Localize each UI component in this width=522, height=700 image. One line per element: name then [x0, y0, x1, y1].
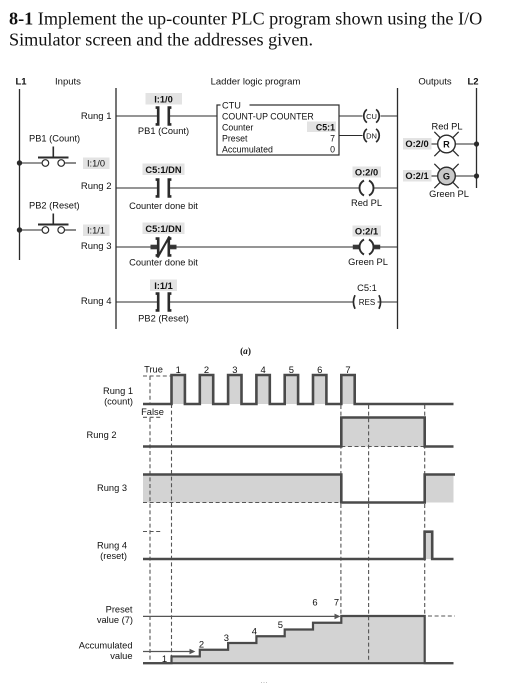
svg-text:...: ...: [260, 675, 268, 685]
svg-text:O:2/1: O:2/1: [355, 227, 378, 237]
svg-text:value (7): value (7): [97, 615, 133, 625]
svg-text:Simulator screen and the addre: Simulator screen and the addresses given…: [9, 30, 313, 50]
svg-text:I:1/1: I:1/1: [154, 281, 173, 291]
svg-text:Accumulated: Accumulated: [79, 640, 133, 650]
svg-text:Preset: Preset: [222, 134, 248, 144]
svg-text:Counter done bit: Counter done bit: [129, 201, 198, 211]
svg-text:True: True: [144, 364, 163, 374]
svg-text:(count): (count): [104, 397, 133, 407]
svg-text:8-1 Implement the up-counter P: 8-1 Implement the up-counter PLC program…: [9, 9, 482, 29]
svg-text:6: 6: [317, 364, 322, 375]
svg-text:O:2/0: O:2/0: [355, 168, 378, 178]
svg-text:(reset): (reset): [100, 551, 127, 561]
svg-text:4: 4: [260, 364, 265, 375]
svg-text:O:2/1: O:2/1: [405, 171, 428, 181]
svg-text:R: R: [443, 139, 450, 149]
svg-text:2: 2: [199, 638, 204, 649]
svg-text:C5:1: C5:1: [316, 123, 335, 133]
svg-text:PB2 (Reset): PB2 (Reset): [138, 314, 189, 324]
svg-text:6: 6: [312, 597, 317, 608]
svg-text:Rung 4: Rung 4: [81, 296, 112, 307]
svg-text:7: 7: [334, 597, 339, 608]
svg-text:0: 0: [330, 145, 335, 155]
svg-text:O:2/0: O:2/0: [405, 139, 428, 149]
svg-text:COUNT-UP COUNTER: COUNT-UP COUNTER: [222, 112, 314, 122]
svg-text:I:1/0: I:1/0: [154, 94, 173, 104]
svg-text:Inputs: Inputs: [55, 77, 81, 88]
svg-text:Preset: Preset: [106, 605, 133, 615]
svg-text:3: 3: [224, 632, 229, 643]
svg-text:5: 5: [289, 364, 294, 375]
svg-text:2: 2: [204, 364, 209, 375]
svg-text:Green PL: Green PL: [429, 189, 469, 199]
svg-text:False: False: [141, 407, 164, 417]
svg-text:C5:1: C5:1: [357, 283, 377, 293]
svg-text:L1: L1: [15, 76, 27, 87]
svg-text:Outputs: Outputs: [418, 77, 452, 88]
svg-text:C5:1/DN: C5:1/DN: [145, 224, 181, 234]
svg-text:(a): (a): [240, 346, 251, 357]
svg-text:C5:1/DN: C5:1/DN: [145, 165, 181, 175]
svg-text:DN: DN: [366, 131, 377, 140]
svg-text:Red PL: Red PL: [431, 121, 462, 131]
svg-text:Counter: Counter: [222, 123, 253, 133]
svg-text:PB1 (Count): PB1 (Count): [29, 134, 80, 144]
svg-text:Rung 3: Rung 3: [81, 241, 112, 252]
svg-text:1: 1: [162, 653, 167, 664]
svg-text:value: value: [110, 651, 132, 661]
svg-text:CTU: CTU: [222, 101, 241, 111]
svg-text:4: 4: [252, 626, 257, 637]
svg-text:I:1/1: I:1/1: [87, 225, 105, 235]
svg-text:CU: CU: [366, 112, 377, 121]
svg-text:Accumulated: Accumulated: [222, 145, 273, 155]
svg-text:Rung 1: Rung 1: [81, 111, 112, 122]
svg-text:Rung 1: Rung 1: [103, 386, 133, 396]
svg-text:Rung 3: Rung 3: [97, 483, 127, 493]
svg-text:Green PL: Green PL: [348, 257, 388, 267]
svg-text:L2: L2: [467, 76, 478, 87]
svg-text:Rung 2: Rung 2: [87, 430, 117, 440]
svg-text:5: 5: [278, 619, 283, 630]
svg-text:7: 7: [345, 364, 350, 375]
svg-text:PB1 (Count): PB1 (Count): [138, 126, 189, 136]
svg-text:7: 7: [330, 134, 335, 144]
svg-text:Ladder logic program: Ladder logic program: [211, 77, 301, 88]
svg-text:PB2 (Reset): PB2 (Reset): [29, 201, 80, 211]
svg-text:3: 3: [232, 364, 237, 375]
svg-text:Counter done bit: Counter done bit: [129, 257, 198, 267]
svg-text:I:1/0: I:1/0: [87, 158, 105, 168]
svg-text:Rung 2: Rung 2: [81, 181, 112, 192]
svg-text:G: G: [443, 171, 450, 181]
svg-text:RES: RES: [359, 298, 375, 307]
svg-text:Red PL: Red PL: [351, 198, 382, 208]
svg-text:1: 1: [176, 364, 181, 375]
svg-text:Rung 4: Rung 4: [97, 541, 127, 551]
